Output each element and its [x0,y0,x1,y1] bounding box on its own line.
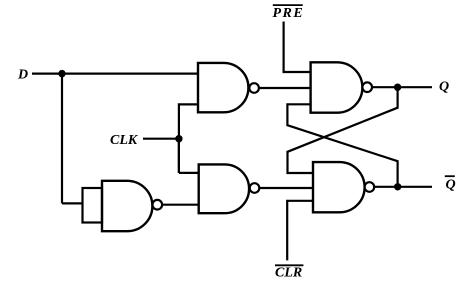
svg-text:CLR: CLR [275,266,302,281]
wire U2 output to U4 input [258,87,310,89]
node CLK junction [175,135,182,142]
wire CLK input [143,138,179,140]
svg-text:PRE: PRE [273,6,305,21]
wire feedback from Q to U5 top input [288,87,398,173]
wire D vertical down [61,74,63,204]
wire U3 top input [179,172,199,174]
node Qbar junction [394,183,401,190]
wire CLR vertical [287,201,313,261]
wire CLK vertical up to U2 lower input [179,104,198,172]
svg-text:CLK: CLK [110,133,139,148]
nand gate U4 (top right) [311,62,363,112]
bubble U3 output [250,183,260,193]
bubble U4 output [362,82,372,92]
svg-text:Q: Q [446,178,456,193]
nand gate U1 (inverter-connected) [102,181,152,231]
wire CLK junction down to U3 top input [178,139,180,173]
wire D input horizontal [32,72,198,74]
wire into inverter tie [62,202,83,204]
svg-text:Q: Q [439,80,449,95]
wire U4 third input feedback from Qbar [287,104,397,187]
nand gate U5 (bottom right) [313,162,365,212]
wire PRE vertical [284,22,311,73]
node D junction [58,70,65,77]
svg-text:D: D [17,68,28,83]
bubble U2 output [249,83,259,93]
overline Qbar [445,175,455,177]
overline PRE [273,4,303,6]
wire inverter input tie rectangle [83,188,103,223]
wire Qbar output [374,186,432,188]
nand gate U2 (top middle) [198,63,248,112]
bubble U5 output [365,182,375,192]
node Q junction [394,84,401,91]
wire Q output [372,86,432,88]
overline CLR [275,264,303,266]
wire U1 output to U3 input [162,204,199,206]
wire U3 output to U5 input [259,187,313,189]
bubble U1 output [153,200,163,210]
nand gate U3 (bottom middle) [199,164,249,213]
